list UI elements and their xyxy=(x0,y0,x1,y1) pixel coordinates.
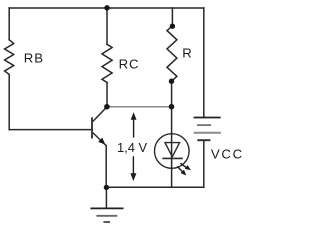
svg-text:R: R xyxy=(182,45,192,60)
svg-text:RC: RC xyxy=(119,57,140,72)
svg-text:1,4 V: 1,4 V xyxy=(117,140,148,155)
svg-text:VCC: VCC xyxy=(211,147,244,162)
svg-text:RB: RB xyxy=(24,50,45,65)
